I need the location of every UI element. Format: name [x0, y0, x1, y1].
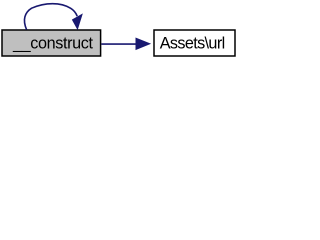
svg-text:Assets\url: Assets\url — [160, 35, 226, 53]
self loop edge on __construct — [24, 4, 82, 30]
node Assets\url — [154, 30, 235, 56]
svg-text:__construct: __construct — [12, 35, 94, 53]
edge __construct to Assets\url — [101, 38, 150, 49]
background — [0, 0, 240, 61]
node __construct — [2, 30, 101, 56]
